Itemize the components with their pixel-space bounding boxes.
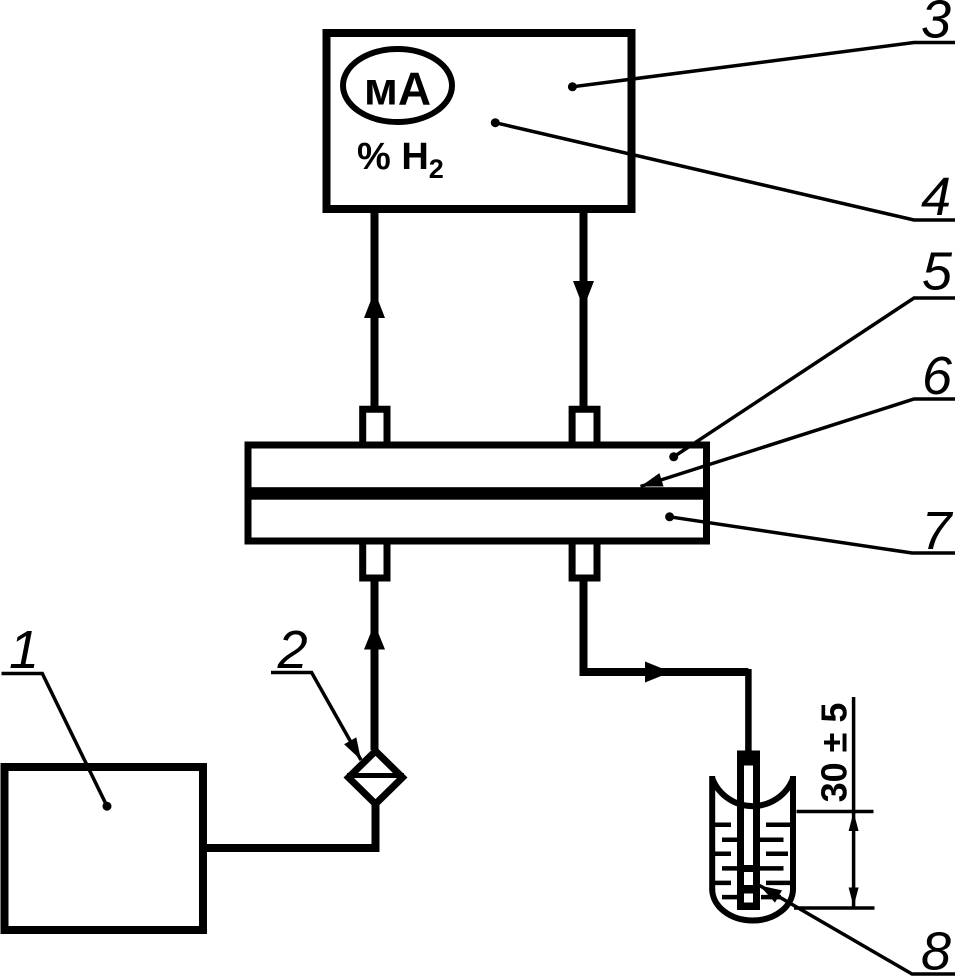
liquid hatch row 3: [712, 852, 788, 857]
label 3 leader: [572, 43, 955, 87]
wire: right upper pipe: [580, 213, 588, 407]
liquid hatch row 2: [722, 838, 784, 843]
label 8 arrowhead: [760, 886, 783, 903]
label 2 leader: [271, 673, 361, 761]
svg-text:4: 4: [921, 167, 951, 227]
liquid hatch row 1: [712, 823, 793, 828]
indicator box (device with мА dial and % H2 scale): [327, 33, 632, 209]
tube interior band 2: [744, 885, 753, 894]
tube interior band 1: [744, 865, 753, 872]
bottom right stub of cell: [572, 541, 597, 578]
dimension vertical arrow line: [852, 812, 856, 907]
vessel rounded bottom: [712, 889, 793, 921]
arrow right on outlet pipe: [645, 662, 671, 683]
bottom left stub of cell: [363, 541, 387, 578]
wire: down pipe into vessel tube: [745, 669, 752, 752]
label 4 leader: [495, 123, 955, 220]
svg-text:мА: мА: [364, 63, 431, 115]
label 5 dot: [669, 452, 678, 461]
membrane (element 6): [251, 487, 704, 500]
arrow up on left lower pipe: [364, 624, 385, 650]
top right stub of cell: [572, 409, 597, 445]
label 1 leader: [2, 674, 108, 807]
liquid hatch row 6: [722, 895, 781, 900]
wire: right lower pipe from cell to vessel: [584, 581, 749, 672]
dimension bottom horizontal line: [794, 906, 875, 910]
cell block (elements 5 upper chamber, 7 lower chamber): [248, 445, 707, 541]
tube closed bottom: [737, 903, 760, 911]
dimension arrowhead down: [849, 888, 859, 907]
filter diamond chord: [347, 773, 404, 778]
wire: left lower pipe from filter to cell: [371, 581, 379, 750]
wire: source box to filter: [207, 805, 376, 848]
wire: left upper pipe: [371, 213, 379, 407]
source box (element 1): [5, 767, 204, 930]
svg-text:% H2: % H2: [357, 136, 444, 184]
svg-text:6: 6: [922, 346, 953, 406]
label 3 dot: [568, 82, 577, 91]
top left stub of cell: [363, 409, 387, 445]
label 2 arrowhead: [344, 737, 361, 760]
liquid meniscus arc: [712, 779, 793, 807]
vessel left wall: [709, 776, 715, 890]
svg-text:1: 1: [9, 620, 39, 680]
svg-text:5: 5: [922, 242, 953, 302]
label 4 dot: [491, 118, 500, 127]
tube right wall: [753, 765, 760, 908]
liquid hatch row 5: [712, 881, 790, 886]
label 7 leader: [670, 517, 955, 553]
label 6 arrowhead: [641, 473, 664, 486]
dimension extension vertical line: [852, 697, 856, 814]
dimension arrowhead up: [849, 812, 859, 831]
label 8 leader: [760, 886, 955, 975]
svg-text:30 ± 5: 30 ± 5: [814, 703, 855, 803]
filter diamond (element 2): [349, 751, 403, 804]
label 6 leader: [641, 399, 955, 487]
arrow down on right upper pipe: [573, 281, 594, 308]
vessel right wall: [790, 776, 796, 890]
tube left wall: [737, 765, 744, 908]
liquid hatch row 4: [722, 866, 784, 871]
label 7 dot: [665, 512, 674, 521]
label 5 leader: [674, 298, 955, 457]
dimension top horizontal line: [797, 810, 874, 814]
мА dial ellipse: [343, 49, 452, 122]
label 1 dot: [103, 802, 112, 811]
svg-text:8: 8: [921, 922, 951, 976]
arrow up on left upper pipe: [364, 291, 385, 318]
tube cap: [737, 751, 760, 766]
